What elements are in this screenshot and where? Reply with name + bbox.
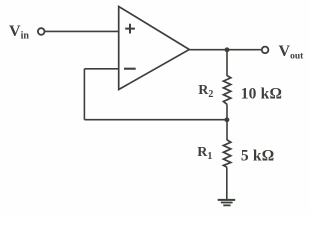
output terminal (Vout node, open circle) <box>262 47 269 54</box>
wire feedback horizontal segment to node B <box>84 119 227 121</box>
wire node B down to R1 <box>226 120 228 141</box>
wire op-amp output to Vout terminal <box>189 49 262 51</box>
wire inverting input stub <box>84 68 118 70</box>
op-amp U1 (triangle body) <box>119 7 190 90</box>
wire feedback vertical segment <box>83 69 85 120</box>
node B (feedback junction dot) <box>224 117 229 122</box>
input terminal (Vin node, open circle) <box>38 28 45 35</box>
svg-text:10 kΩ: 10 kΩ <box>241 85 282 102</box>
svg-text:5 kΩ: 5 kΩ <box>241 147 274 164</box>
op-amp plus marking (non-inverting input) <box>125 24 135 34</box>
node A (output junction dot) <box>225 47 230 52</box>
wire node A down to R2 <box>226 50 228 76</box>
wire R1 to ground <box>226 167 228 200</box>
wire Vin terminal to op-amp non-inverting input <box>45 30 119 32</box>
op-amp minus marking (inverting input) <box>124 68 136 70</box>
resistor R2 (zigzag) <box>223 76 230 105</box>
resistor R1 (zigzag) <box>223 140 230 167</box>
ground <box>218 200 236 206</box>
wire R2 to node B <box>226 104 228 119</box>
